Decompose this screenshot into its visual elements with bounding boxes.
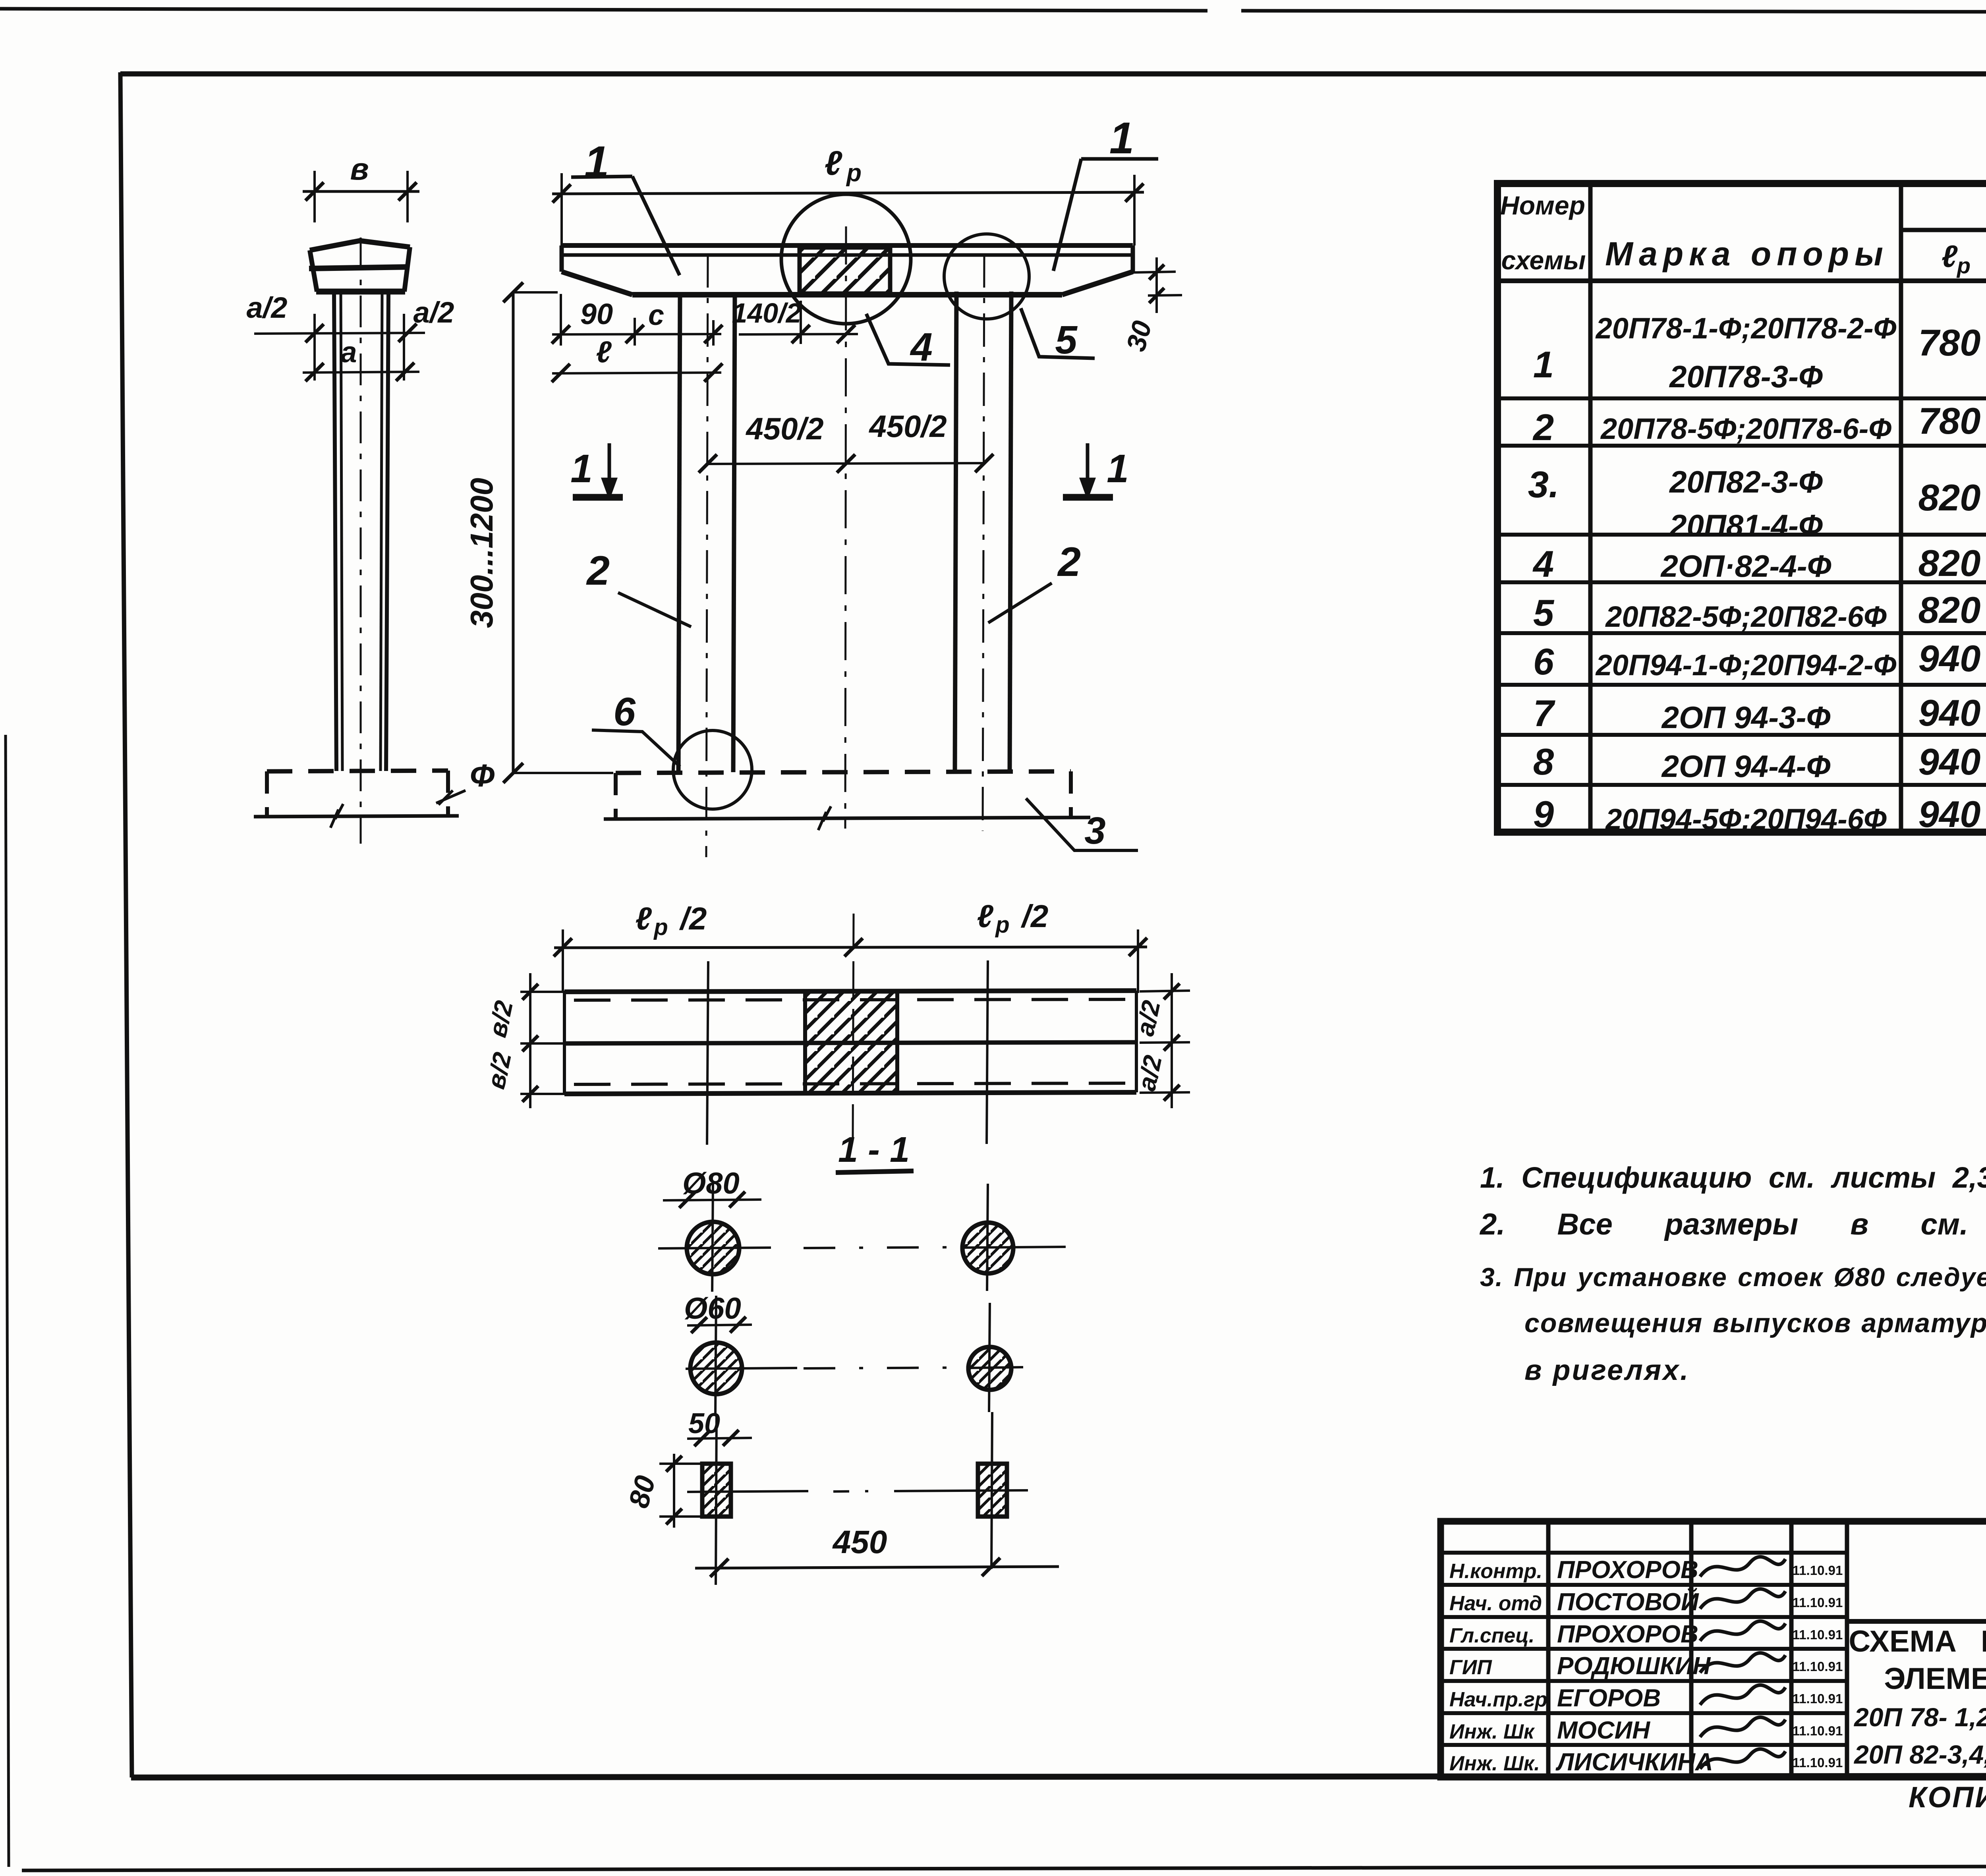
- svg-text:20П81-4-Ф: 20П81-4-Ф: [1669, 508, 1823, 543]
- svg-text:20П78-1-Ф;20П78-2-Ф: 20П78-1-Ф;20П78-2-Ф: [1595, 312, 1897, 345]
- svg-text:4: 4: [1532, 543, 1554, 585]
- svg-text:ℓ: ℓ: [635, 901, 652, 936]
- svg-text:РОДЮШКИН: РОДЮШКИН: [1557, 1652, 1711, 1680]
- svg-text:2: 2: [586, 548, 610, 594]
- svg-text:20П 82-3,4,5,6-Ф ; 20П94-1...6: 20П 82-3,4,5,6-Ф ; 20П94-1...6-Ф: [1853, 1740, 1986, 1769]
- svg-text:3. При установке стоек Ø80 сле: 3. При установке стоек Ø80 следует учиты…: [1480, 1262, 1986, 1292]
- svg-text:Гл.спец.: Гл.спец.: [1449, 1624, 1534, 1647]
- svg-text:ℓ: ℓ: [596, 335, 612, 369]
- svg-text:11.10.91: 11.10.91: [1793, 1755, 1843, 1770]
- svg-text:ЕГОРОВ: ЕГОРОВ: [1557, 1685, 1661, 1712]
- svg-text:р: р: [995, 912, 1009, 938]
- svg-text:20П94-1-Ф;20П94-2-Ф: 20П94-1-Ф;20П94-2-Ф: [1595, 649, 1897, 682]
- svg-text:940: 940: [1918, 692, 1981, 734]
- svg-text:ГИП: ГИП: [1449, 1656, 1492, 1679]
- svg-text:820: 820: [1918, 477, 1981, 518]
- svg-text:ПРОХОРОВ: ПРОХОРОВ: [1557, 1556, 1698, 1584]
- svg-text:Марка опоры: Марка опоры: [1605, 235, 1889, 272]
- svg-text:Инж. Шк: Инж. Шк: [1449, 1720, 1535, 1743]
- svg-text:11.10.91: 11.10.91: [1793, 1595, 1843, 1610]
- svg-text:2: 2: [1057, 539, 1081, 585]
- svg-text:11.10.91: 11.10.91: [1793, 1627, 1843, 1642]
- svg-text:11.10.91: 11.10.91: [1793, 1691, 1843, 1706]
- svg-text:20П94-5Ф;20П94-6Ф: 20П94-5Ф;20П94-6Ф: [1605, 803, 1887, 836]
- svg-text:a/2: a/2: [413, 296, 454, 329]
- svg-text:780: 780: [1918, 400, 1981, 442]
- svg-text:8: 8: [1533, 741, 1554, 782]
- svg-text:Нач.пр.гр: Нач.пр.гр: [1449, 1688, 1547, 1711]
- svg-text:1: 1: [570, 446, 593, 491]
- svg-text:20П 78- 1,2,3,5,6-Ф; 20П 81-4: 20П 78- 1,2,3,5,6-Ф; 20П 81-4- Ф: [1853, 1702, 1986, 1732]
- svg-text:2ОП·82-4-Ф: 2ОП·82-4-Ф: [1660, 549, 1831, 583]
- svg-text:КОПИРОВАЛ: №25430-02 25 ФОРМ: КОПИРОВАЛ: №25430-02 25 ФОРМАТ А3: [1909, 1781, 1986, 1814]
- svg-text:ℓ: ℓ: [977, 898, 993, 934]
- svg-text:780: 780: [1918, 322, 1981, 363]
- svg-text:820: 820: [1918, 589, 1981, 631]
- svg-text:3.: 3.: [1528, 464, 1559, 505]
- svg-text:450/2: 450/2: [745, 411, 823, 446]
- svg-text:450/2: 450/2: [868, 409, 947, 444]
- svg-text:р: р: [846, 159, 862, 187]
- svg-text:11.10.91: 11.10.91: [1793, 1659, 1843, 1674]
- svg-text:Н.контр.: Н.контр.: [1449, 1560, 1542, 1583]
- svg-text:1: 1: [1109, 113, 1134, 163]
- svg-text:300...1200: 300...1200: [464, 478, 499, 628]
- svg-text:6: 6: [613, 690, 636, 734]
- svg-text:в: в: [350, 151, 369, 186]
- svg-text:1. Спецификацию см. листы 2,3.: 1. Спецификацию см. листы 2,3.: [1480, 1161, 1986, 1194]
- svg-text:Ф: Ф: [470, 758, 495, 793]
- svg-text:ЛИСИЧКИНА: ЛИСИЧКИНА: [1555, 1748, 1713, 1776]
- svg-text:Нач. отд: Нач. отд: [1449, 1592, 1542, 1615]
- svg-text:ℓ: ℓ: [825, 144, 842, 182]
- svg-text:20П82-5Ф;20П82-6Ф: 20П82-5Ф;20П82-6Ф: [1605, 600, 1887, 633]
- svg-text:140/2: 140/2: [732, 298, 801, 328]
- svg-text:СХЕМА РАСПОЛОЖЕНИЯ: СХЕМА РАСПОЛОЖЕНИЯ: [1849, 1625, 1986, 1658]
- svg-text:11.10.91: 11.10.91: [1793, 1563, 1843, 1578]
- svg-text:р: р: [1956, 253, 1971, 278]
- svg-text:450: 450: [832, 1524, 887, 1560]
- svg-text:940: 940: [1918, 741, 1981, 782]
- svg-text:6: 6: [1533, 641, 1554, 682]
- svg-text:2: 2: [1532, 406, 1554, 448]
- svg-text:1: 1: [584, 137, 609, 187]
- svg-text:5: 5: [1055, 318, 1078, 362]
- svg-text:1 - 1: 1 - 1: [838, 1130, 910, 1170]
- svg-text:4: 4: [910, 325, 933, 369]
- svg-text:МОСИН: МОСИН: [1557, 1717, 1650, 1744]
- svg-text:р: р: [653, 914, 668, 940]
- svg-text:Номер: Номер: [1500, 191, 1585, 220]
- svg-text:Инж. Шк.: Инж. Шк.: [1449, 1752, 1540, 1775]
- svg-text:ПОСТОВОЙ: ПОСТОВОЙ: [1557, 1588, 1699, 1616]
- svg-text:820: 820: [1918, 542, 1981, 584]
- svg-text:совмещения выпусков арматуры: совмещения выпусков арматуры из стоек с …: [1524, 1308, 1986, 1338]
- svg-text:a/2: a/2: [247, 291, 288, 324]
- svg-text:c: c: [648, 299, 664, 331]
- svg-text:7: 7: [1533, 692, 1555, 734]
- svg-text:940: 940: [1918, 638, 1981, 679]
- svg-text:a: a: [340, 336, 357, 369]
- svg-text:5: 5: [1533, 592, 1555, 634]
- svg-text:/2: /2: [1021, 898, 1049, 934]
- svg-text:Ø60: Ø60: [684, 1292, 741, 1325]
- svg-text:3: 3: [1084, 810, 1105, 852]
- svg-text:ЭЛЕМЕНТОВ ОПОР: ЭЛЕМЕНТОВ ОПОР: [1884, 1662, 1986, 1696]
- svg-text:11.10.91: 11.10.91: [1793, 1723, 1843, 1738]
- svg-text:940: 940: [1918, 793, 1981, 835]
- svg-text:2ОП 94-3-Ф: 2ОП 94-3-Ф: [1661, 700, 1831, 735]
- svg-text:90: 90: [580, 298, 613, 330]
- svg-text:2ОП 94-4-Ф: 2ОП 94-4-Ф: [1661, 749, 1831, 784]
- svg-text:20П78-3-Ф: 20П78-3-Ф: [1669, 359, 1823, 394]
- svg-text:ПРОХОРОВ: ПРОХОРОВ: [1557, 1621, 1698, 1648]
- svg-text:1: 1: [1533, 344, 1554, 385]
- svg-text:20П78-5Ф;20П78-6-Ф: 20П78-5Ф;20П78-6-Ф: [1600, 412, 1891, 445]
- svg-text:/2: /2: [679, 901, 707, 936]
- svg-text:в ригелях.: в ригелях.: [1524, 1354, 1690, 1386]
- svg-text:9: 9: [1533, 793, 1554, 835]
- svg-text:ℓ: ℓ: [1942, 239, 1958, 274]
- svg-text:схемы: схемы: [1501, 245, 1586, 275]
- svg-text:1: 1: [1107, 446, 1129, 491]
- svg-text:20П82-3-Ф: 20П82-3-Ф: [1669, 464, 1823, 499]
- svg-text:2. Все размеры в см.: 2. Все размеры в см.: [1479, 1208, 1968, 1241]
